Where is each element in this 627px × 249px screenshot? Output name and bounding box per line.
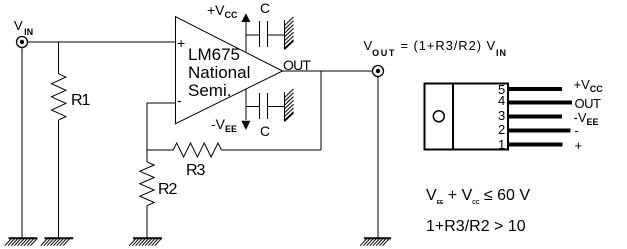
arrow +VCC — [241, 13, 250, 22]
wire R2 top lead — [146, 150, 148, 162]
output terminal VOUT — [373, 66, 384, 77]
wire inverting input — [147, 103, 176, 150]
pin 5 label +VCC — [574, 78, 603, 94]
label +VCC — [207, 3, 238, 20]
arrow -VEE — [241, 121, 250, 130]
label -VEE — [211, 117, 237, 134]
pin number 1 — [498, 138, 505, 151]
package tab divider — [452, 84, 454, 150]
input terminal VIN — [17, 37, 28, 48]
value label R2 — [158, 182, 176, 198]
wire R3 to feedback node — [221, 149, 321, 151]
wire -VEE stem — [245, 90, 247, 121]
label VIN — [14, 19, 33, 37]
value label C1 — [260, 1, 270, 15]
wire R3 left lead — [147, 149, 173, 151]
pin 3 label -VEE — [574, 111, 599, 127]
wire C1 to chassis ground — [268, 34, 285, 36]
op-amp part label LM675 National Semi. — [188, 46, 250, 101]
wire +VCC stem — [245, 22, 247, 52]
pin 4 label OUT — [575, 97, 601, 110]
note gain limit — [426, 219, 526, 235]
wire VOUT terminal to ground — [377, 77, 379, 239]
pin number 2 — [498, 123, 505, 136]
op-amp U1 triangle — [176, 17, 283, 124]
label VOUT formula — [364, 39, 508, 58]
value label R3 — [186, 163, 204, 179]
wire R1 to ground — [58, 120, 60, 238]
wire VIN to noninverting input — [28, 41, 177, 43]
wire C2 to chassis ground — [268, 106, 285, 108]
pin 2 lead — [508, 129, 570, 133]
wire feedback vertical — [320, 71, 322, 150]
pin 2 label minus — [575, 124, 579, 137]
wire VCC to capacitor C1 — [246, 34, 260, 36]
value label R1 — [71, 93, 89, 109]
wire R2 to ground — [146, 206, 148, 238]
chassis ground GC1 — [285, 17, 294, 50]
capacitor C1 — [260, 21, 268, 47]
pin 3 lead — [508, 115, 562, 119]
value label C2 — [260, 124, 270, 138]
pin number 3 — [498, 109, 505, 122]
resistor R3 — [173, 143, 221, 157]
pin number 4 — [498, 94, 505, 107]
ground G2 — [41, 238, 73, 246]
pin 5 lead — [508, 87, 562, 91]
note VEE + VCC limit — [426, 188, 530, 206]
pin 4 lead — [508, 100, 572, 104]
ground G4 — [360, 238, 391, 246]
ground G1 — [5, 238, 38, 246]
resistor R1 — [52, 74, 66, 120]
wire R1 branch — [58, 42, 60, 74]
chassis ground GC2 — [285, 89, 294, 122]
pin 1 lead — [508, 143, 563, 147]
wire output — [283, 70, 373, 72]
ground G3 — [129, 238, 162, 246]
wire VIN terminal to ground — [21, 48, 23, 239]
op-amp inverting input minus sign — [177, 93, 182, 107]
package mounting hole — [433, 111, 444, 122]
label OUT at op-amp output — [283, 58, 310, 72]
capacitor C2 — [260, 93, 268, 119]
pin number 5 — [498, 83, 505, 96]
resistor R2 — [140, 162, 154, 206]
pin 1 label plus — [575, 139, 583, 152]
package U1 TO-220 body — [424, 84, 508, 150]
op-amp noninverting input plus sign — [177, 36, 185, 50]
wire VEE to capacitor C2 — [246, 106, 260, 108]
